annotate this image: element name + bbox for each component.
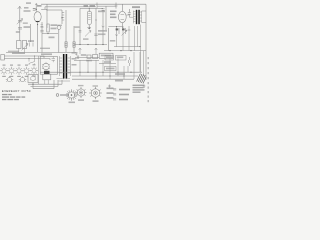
T3 primary winding [60, 56, 63, 76]
wire V1 grid cap lead [35, 3, 37, 12]
cathode V1 [36, 21, 40, 23]
V2 grid strokes [88, 14, 90, 20]
relay box [99, 53, 113, 58]
wire nested 4 [33, 80, 54, 89]
tube V1 converter [34, 12, 41, 22]
node plus junction [115, 3, 118, 9]
label C2 value [24, 26, 31, 28]
note line 1 [2, 94, 12, 95]
wire audio line 3 [99, 63, 116, 65]
label voltages column [110, 11, 117, 19]
electrolytic blob b [122, 28, 125, 30]
wire detector drop [95, 9, 97, 45]
label B minus [8, 51, 19, 53]
label C2a [23, 22, 28, 24]
electrolytic C10 [17, 41, 21, 49]
wire if plate line [80, 7, 103, 9]
tube socket S2 [8, 65, 16, 78]
node grid dot [36, 9, 37, 10]
choke dark core [44, 71, 50, 74]
node T3 tap dots [63, 78, 64, 79]
label 2nd det text [98, 11, 105, 13]
label relay text [101, 55, 112, 57]
speaker pins [42, 62, 50, 71]
label parts rows [113, 88, 130, 100]
box K pins [30, 75, 36, 80]
wire ant coil drop [19, 12, 21, 41]
label audio text a [81, 54, 87, 56]
label below buses [115, 80, 123, 82]
resistor R1 [22, 41, 26, 49]
label adjust [60, 94, 69, 96]
wire lower bus 2 [72, 75, 138, 77]
node junction R4 [89, 8, 90, 9]
tube socket S6 [76, 87, 87, 98]
wire R4 arrow bottom [88, 25, 92, 29]
output transformer T2 core [136, 10, 140, 24]
wire bus right [104, 50, 146, 52]
trimmer circle [57, 26, 61, 30]
label speaker text [41, 53, 52, 55]
label T1 text [57, 25, 62, 27]
label S7 [93, 100, 99, 102]
resistor box R9 [105, 55, 114, 60]
wire AC line 2 [4, 59, 50, 60]
label osc top [41, 26, 44, 27]
socket small B [19, 76, 26, 82]
node AC dots [28, 58, 29, 59]
T1 primary winding [62, 10, 64, 24]
label R2 text a [51, 24, 58, 26]
label T2 text [132, 6, 140, 8]
tube socket S1 [0, 65, 8, 78]
label S6 [78, 99, 84, 101]
power transformer T3 core [63, 54, 67, 78]
capacitor C2 [18, 27, 22, 29]
tube socket S4 [23, 65, 31, 78]
T3 secondary winding [68, 56, 71, 76]
label AC switch [12, 52, 25, 54]
label S6 above [78, 85, 84, 86]
capacitor screen tick [79, 31, 82, 33]
adjust circle [56, 94, 59, 97]
label right col 1 [107, 88, 114, 99]
wire B plus riser [96, 3, 98, 7]
switch S1 [29, 56, 35, 65]
wire T2 secondary drops [138, 25, 144, 77]
tube socket S5 [30, 64, 38, 77]
wire mid drop a [30, 24, 32, 42]
page edge marks [147, 57, 150, 102]
wire bottom bus left [6, 52, 76, 54]
tube V3 output [118, 11, 126, 22]
tube socket S3 [15, 65, 23, 78]
AVC arrow [102, 26, 105, 28]
resistor R5 [65, 42, 67, 48]
label R value mid [49, 37, 55, 39]
note line 2 [2, 96, 25, 97]
node T1 dot [61, 17, 62, 18]
wire RV drops [117, 36, 124, 51]
volume control arrow [85, 31, 91, 37]
wire arrow up b [95, 48, 98, 54]
electrolytic blob a [116, 28, 119, 30]
padder marks [41, 25, 44, 27]
wire nested 1 [32, 83, 34, 89]
rectifier label box [105, 66, 117, 70]
capacitor C4 [94, 34, 97, 36]
label IF text [84, 5, 89, 7]
wire trimmer drop [58, 29, 60, 52]
label ant text 2 [24, 7, 29, 9]
wire lower bus 3 [72, 78, 134, 80]
antenna mast [19, 6, 21, 12]
label B minus row [40, 48, 50, 49]
resistor R6 [73, 42, 75, 48]
node bus right dot [139, 46, 140, 47]
box K socket glyph [31, 76, 36, 81]
wire AVC drop [102, 11, 104, 45]
label between buses [115, 73, 125, 75]
tube socket S7 [89, 87, 102, 99]
resistor R8 box [93, 55, 98, 59]
label ant text 1 [26, 2, 31, 4]
capacitor det ticks [102, 9, 105, 10]
wire V3 plate feed [121, 4, 123, 11]
label 1st det [37, 5, 42, 7]
grid cap tick [35, 3, 38, 5]
label T3 voltages [72, 52, 78, 66]
grid components cluster [33, 9, 36, 10]
wire top border [41, 3, 146, 5]
socket small A [6, 76, 13, 82]
label R1 value [28, 40, 34, 42]
label pot text [83, 38, 89, 40]
capacitor C2a [18, 20, 22, 22]
variable resistor RV2 [123, 26, 126, 36]
R5 marks [65, 44, 67, 46]
RV1 arrow [115, 34, 118, 36]
wire screen drop [79, 8, 81, 44]
resistor R2 [47, 24, 49, 32]
label R2 text b [51, 28, 57, 30]
T2 primary winding [133, 11, 135, 24]
wire AVC end tick [45, 6, 97, 9]
node cathode base dot [37, 24, 38, 25]
node cathode dot [116, 26, 117, 27]
wire right border [145, 4, 147, 80]
wire cathode link [108, 26, 122, 28]
wire bus right upper [114, 46, 140, 48]
label ant text 3 [24, 10, 31, 12]
C7 tick [128, 29, 131, 31]
wire T1 top [47, 9, 62, 11]
trimmer arrow C2a [17, 19, 23, 25]
node chassis plus [108, 85, 111, 88]
choke box [43, 74, 51, 80]
wire audio line 2 [74, 60, 99, 62]
label network text2 [98, 33, 106, 35]
speaker SP1 [43, 63, 49, 69]
speaker box [40, 57, 57, 75]
switch contact b [32, 43, 34, 47]
label note paragraph [133, 85, 145, 93]
wire V1 cathode drop [37, 22, 39, 52]
node junction T1 [47, 10, 48, 11]
capacitor C11 [129, 57, 131, 66]
choke leads [45, 80, 48, 84]
component box K [28, 75, 38, 83]
wire B plus segment [97, 5, 116, 7]
wire coupling to output [105, 7, 107, 31]
wire T3 secondary taps [57, 79, 71, 81]
wire lower bus 1 [40, 71, 142, 73]
wire osc link [42, 33, 58, 35]
speaker detail [44, 66, 47, 68]
wire V1 plate [41, 9, 47, 11]
AC line cord plug [1, 55, 5, 61]
wire V3 cathode [121, 23, 123, 28]
hatched coil [137, 74, 147, 84]
wire T1 secondary drop [65, 10, 67, 52]
grid V3 [121, 15, 125, 20]
note line 3 [2, 99, 19, 100]
wire nested 3 [31, 80, 59, 86]
ground mark [143, 85, 146, 88]
wire bus ties [80, 72, 124, 79]
label dial [69, 102, 76, 104]
wire speaker left drop [38, 56, 40, 84]
node nested dot [32, 84, 33, 85]
wire osc drop [41, 22, 43, 53]
wire arrow up a [79, 48, 82, 54]
tube V2 IF amp [87, 11, 91, 25]
wire vertical ties lower [80, 52, 140, 79]
RV2 arrow [122, 30, 128, 36]
wire AC line 1 [4, 56, 44, 58]
T2 secondary winding [140, 11, 142, 23]
antenna arrow [18, 6, 22, 9]
switch contact a [29, 43, 31, 47]
wire V3 plate to T2 [126, 15, 133, 17]
capacitor C8 [128, 9, 131, 17]
wire C7 drops [129, 26, 135, 51]
resistor box R10 [116, 55, 127, 60]
label network text [98, 30, 107, 32]
variable resistor RV1 [117, 26, 120, 36]
wire audio line 1 [75, 56, 99, 58]
label S7 above [93, 85, 99, 86]
wire R4 top [88, 8, 90, 12]
node det dot [95, 19, 96, 20]
arrow volume control [22, 44, 29, 51]
capacitor C12 [77, 55, 79, 59]
resistor R7 box [87, 55, 91, 58]
wire bus mid [74, 44, 107, 46]
wire nested 2 [28, 80, 62, 84]
wire T2 to frame [142, 11, 146, 23]
R6 marks [73, 44, 75, 46]
capacitor C9 [52, 57, 56, 63]
label mid right text [110, 40, 116, 42]
node R4 bottom dot [89, 27, 90, 28]
node osc dot [47, 33, 48, 34]
node lower bus dots [79, 72, 131, 77]
wire drop x74 [73, 26, 75, 52]
label grid text [16, 31, 20, 33]
wire drop x108 [107, 28, 109, 51]
wire box drops [19, 49, 25, 53]
node C12 plus [75, 53, 77, 55]
wire AVC line [45, 6, 96, 8]
capacitor C3 [40, 30, 43, 32]
IF transformer T1 can [46, 4, 48, 28]
node bus dots [79, 44, 131, 51]
label 456KC text [90, 5, 96, 7]
dial gear [66, 89, 77, 100]
label resistor row text [86, 56, 123, 69]
svg-text:EVEREADY 33750: EVEREADY 33750 [2, 90, 31, 93]
label volume text [75, 26, 80, 28]
